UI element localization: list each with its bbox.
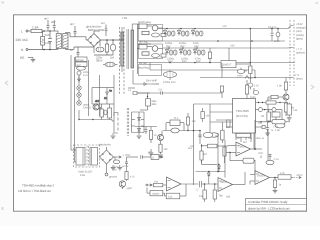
svg-text:C: C	[197, 189, 199, 192]
svg-text:4n7: 4n7	[51, 20, 56, 24]
svg-text:17V: 17V	[254, 85, 259, 88]
svg-text:(blue): (blue)	[296, 78, 303, 81]
svg-text:1VA: 1VA	[80, 174, 85, 177]
svg-text:LM 324 m + TDA block ver: LM 324 m + TDA block ver	[18, 189, 51, 193]
svg-text:BC546: BC546	[76, 59, 84, 62]
svg-text:16V: 16V	[196, 60, 201, 63]
svg-text:pos/h Reg: pos/h Reg	[138, 20, 151, 24]
svg-text:C4: C4	[159, 89, 163, 92]
svg-text:(4u): (4u)	[148, 151, 152, 154]
svg-text:PE: PE	[20, 56, 24, 60]
svg-text:(M 1710): (M 1710)	[236, 114, 248, 118]
svg-text:(white): (white)	[296, 34, 304, 37]
svg-text:2,2u: 2,2u	[274, 158, 279, 161]
svg-text:ground: ground	[109, 176, 118, 179]
svg-text:4k1: 4k1	[188, 147, 193, 150]
svg-text:CNY17: CNY17	[83, 107, 92, 110]
svg-text:TDA 4601+multitab step 2: TDA 4601+multitab step 2	[22, 183, 55, 187]
svg-text:+PCV: +PCV	[296, 174, 303, 177]
svg-text:5M4: 5M4	[152, 103, 157, 106]
svg-text:4n7: 4n7	[101, 22, 106, 25]
svg-text:S10: S10	[45, 33, 50, 37]
svg-text:pos 5 Reg: pos 5 Reg	[138, 42, 151, 46]
svg-text:100n: 100n	[237, 75, 243, 78]
svg-text:TDA 4565: TDA 4565	[236, 109, 249, 113]
svg-text:drawn by MW - LCDhacked.com: drawn by MW - LCDhacked.com	[248, 206, 290, 210]
svg-text:4700u 16V: 4700u 16V	[163, 81, 176, 84]
svg-text:4k7: 4k7	[95, 100, 100, 103]
svg-text:1.8k: 1.8k	[277, 85, 282, 88]
svg-text:-7 V: -7 V	[294, 73, 299, 77]
svg-text:+2.7V: +2.7V	[122, 165, 129, 168]
svg-text:1n: 1n	[70, 48, 74, 52]
svg-text:TR1: TR1	[122, 16, 128, 20]
svg-text:LM324: LM324	[257, 175, 265, 178]
svg-text:230 VAC: 230 VAC	[16, 38, 29, 42]
svg-text:100n: 100n	[274, 40, 280, 43]
svg-text:4n7: 4n7	[44, 17, 49, 21]
svg-text:4k7: 4k7	[243, 141, 248, 144]
svg-text:22n: 22n	[226, 126, 231, 129]
svg-text:D4 +VHF: D4 +VHF	[146, 80, 157, 83]
svg-text:16V: 16V	[182, 60, 187, 63]
svg-text:1,2k: 1,2k	[267, 98, 272, 101]
svg-text:LM324: LM324	[239, 146, 247, 149]
svg-text:+5V: +5V	[248, 77, 253, 80]
svg-text:Controller PWB 230VAC Suply: Controller PWB 230VAC Suply	[248, 200, 288, 204]
svg-text:(grey): (grey)	[296, 37, 303, 40]
svg-text:(yellow): (yellow)	[296, 52, 305, 55]
svg-text:35V: 35V	[113, 168, 118, 171]
svg-text:1M: 1M	[244, 70, 247, 73]
svg-text:4.7u: 4.7u	[83, 74, 89, 77]
svg-text:VCC: VCC	[258, 152, 263, 155]
svg-text:+61V: +61V	[296, 22, 303, 26]
svg-text:trafo 2x12V: trafo 2x12V	[79, 171, 93, 174]
svg-text:K250: K250	[45, 41, 52, 45]
svg-text:1.5k: 1.5k	[275, 129, 280, 132]
svg-text:L: L	[21, 29, 23, 33]
svg-text:LM317: LM317	[223, 64, 232, 67]
svg-text:1.6A: 1.6A	[32, 25, 39, 29]
svg-text:1k8: 1k8	[226, 196, 231, 199]
svg-text:TL2: TL2	[174, 117, 179, 120]
svg-text:+7 V: +7 V	[296, 47, 302, 51]
svg-text:OP07: OP07	[221, 181, 228, 184]
svg-text:(orange): (orange)	[296, 27, 306, 30]
svg-text:LM324: LM324	[152, 193, 160, 196]
svg-text:100u 1u: 100u 1u	[256, 137, 265, 140]
svg-text:(red): (red)	[296, 30, 302, 33]
svg-text:4k7: 4k7	[203, 153, 208, 156]
svg-text:4n7: 4n7	[70, 22, 75, 26]
svg-text:385V: 385V	[96, 59, 103, 63]
svg-text:C14: C14	[168, 196, 173, 199]
svg-text:4,7k: 4,7k	[130, 176, 135, 179]
svg-text:4,7k: 4,7k	[280, 172, 285, 175]
svg-text:LTX: LTX	[274, 126, 279, 129]
svg-text:+5V: +5V	[230, 45, 235, 48]
svg-text:22n: 22n	[258, 122, 263, 125]
svg-text:1,4k: 1,4k	[293, 109, 298, 112]
svg-text:100n: 100n	[250, 96, 256, 99]
svg-text:1M: 1M	[110, 56, 115, 60]
svg-text:7k8: 7k8	[219, 195, 224, 198]
svg-text:+6V: +6V	[222, 25, 227, 28]
svg-text:B250 C1500: B250 C1500	[88, 28, 104, 32]
svg-text:+gnd: +gnd	[126, 187, 132, 190]
svg-text:gleichricht: gleichricht	[99, 144, 111, 147]
svg-text:2N: 2N	[261, 115, 264, 118]
svg-text:10n: 10n	[215, 135, 220, 138]
svg-text:+ VCC: + VCC	[123, 154, 131, 157]
svg-text:neg Reg: neg Reg	[138, 66, 149, 70]
